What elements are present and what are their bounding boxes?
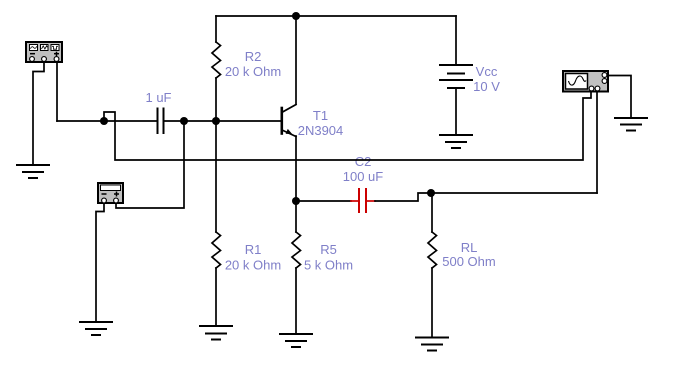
oscilloscope instrument <box>563 71 608 92</box>
wire emitter column <box>295 136 297 201</box>
svg-text:R5: R5 <box>320 242 337 257</box>
ground R5 <box>280 334 312 347</box>
node input A <box>100 117 108 125</box>
node emitter/R5/C2 <box>292 197 300 205</box>
wire C2 to output node <box>375 193 597 201</box>
svg-text:20 k Ohm: 20 k Ohm <box>225 64 281 79</box>
wire emitter row to C2 <box>296 200 351 202</box>
svg-text:1 uF: 1 uF <box>145 90 171 105</box>
multimeter instrument <box>98 183 123 203</box>
wire main input rail <box>57 120 157 122</box>
resistor R2 <box>212 42 221 78</box>
wire R2 bottom lead <box>215 78 217 121</box>
svg-text:T1: T1 <box>313 108 328 123</box>
transistor T1 2N3904 <box>282 105 296 137</box>
node base/R2/R1 <box>212 117 220 125</box>
wire function generator plus lead <box>56 63 58 121</box>
transistor emitter arrow <box>286 129 293 134</box>
ground multimeter <box>80 322 112 335</box>
wire 1uF to base <box>164 120 280 122</box>
svg-text:5 k Ohm: 5 k Ohm <box>304 258 353 273</box>
wire multimeter minus lead <box>96 204 104 322</box>
svg-text:500 Ohm: 500 Ohm <box>442 254 495 269</box>
svg-text:10 V: 10 V <box>473 79 500 94</box>
wire R1 bottom lead <box>215 268 217 326</box>
svg-text:C2: C2 <box>355 154 372 169</box>
wire collector column <box>295 16 297 104</box>
wire R2 top lead <box>215 16 217 42</box>
wire battery bottom lead <box>455 88 457 135</box>
node output/RL <box>427 189 435 197</box>
node junction dots <box>100 12 435 205</box>
svg-text:100 uF: 100 uF <box>343 169 384 184</box>
svg-text:2N3904: 2N3904 <box>298 123 344 138</box>
wire RL bottom lead <box>431 268 433 338</box>
ground function generator <box>17 165 49 178</box>
ground oscilloscope <box>615 118 647 131</box>
wire R5 bottom lead <box>295 268 297 334</box>
resistor RL <box>428 232 437 268</box>
function generator instrument <box>26 42 62 62</box>
svg-text:R2: R2 <box>245 49 262 64</box>
svg-text:20 k Ohm: 20 k Ohm <box>225 258 281 273</box>
wire R5 top lead <box>295 201 297 232</box>
resistor R5 <box>292 232 301 268</box>
svg-text:Vcc: Vcc <box>476 64 498 79</box>
svg-text:R1: R1 <box>245 242 262 257</box>
wire RL top lead <box>431 193 433 232</box>
wire function generator common lead <box>33 63 44 165</box>
node collector/rail <box>292 12 300 20</box>
wire scope ground lead <box>609 76 631 119</box>
ground battery <box>440 135 472 148</box>
capacitor 1 uF <box>158 109 164 134</box>
wire top rail <box>216 15 456 17</box>
wire scope A probe to input node <box>104 92 591 160</box>
battery Vcc <box>440 65 472 88</box>
wire scope B probe <box>596 92 598 193</box>
ground R1 <box>200 326 232 340</box>
wire multimeter plus lead <box>116 121 184 208</box>
ground RL <box>416 338 448 351</box>
capacitor C2 (red) <box>351 189 375 212</box>
resistor R1 <box>212 232 221 268</box>
wire R1 top lead <box>215 121 217 232</box>
wire battery top lead <box>455 16 457 65</box>
node multimeter tap <box>180 117 188 125</box>
svg-text:RL: RL <box>461 240 478 255</box>
